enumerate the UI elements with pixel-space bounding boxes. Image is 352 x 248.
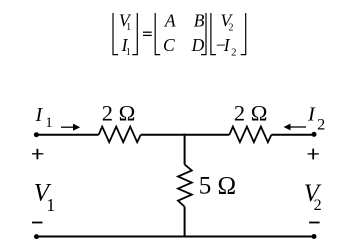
svg-text:I: I — [35, 104, 44, 126]
arrow for current I2 — [284, 124, 307, 131]
wire: shunt bottom lead — [184, 207, 186, 237]
plus sign right port — [308, 149, 319, 160]
svg-text:2: 2 — [229, 22, 234, 33]
bracket right of vector [V1;I1] — [132, 13, 137, 55]
svg-text:B: B — [194, 10, 205, 30]
wire: top-right lead — [271, 134, 314, 136]
wire: top-left lead — [36, 134, 98, 136]
svg-text:1: 1 — [45, 115, 52, 131]
svg-text:2 Ω: 2 Ω — [102, 101, 136, 126]
svg-text:I: I — [307, 103, 316, 125]
svg-text:1: 1 — [126, 22, 131, 33]
arrow for current I1 — [61, 124, 80, 131]
resistor R3 5ohm vertical zigzag — [178, 164, 192, 206]
minus sign right port — [309, 222, 320, 224]
svg-text:A: A — [164, 10, 176, 30]
svg-text:1: 1 — [46, 195, 55, 215]
svg-text:2: 2 — [317, 115, 325, 134]
svg-text:I: I — [223, 35, 231, 55]
wire: top middle segment — [141, 134, 230, 136]
terminal dot bottom-right — [312, 234, 317, 239]
bracket left of ABCD matrix — [155, 13, 160, 55]
terminal dot top-right — [312, 132, 317, 137]
bracket right of vector [V2;-I2] — [241, 13, 246, 55]
svg-text:C: C — [163, 35, 175, 55]
bracket left of vector [V2;-I2] — [211, 13, 216, 55]
resistor R1 2ohm left zigzag — [99, 127, 141, 143]
svg-text:5 Ω: 5 Ω — [199, 173, 236, 200]
plus sign left port — [32, 149, 43, 160]
svg-text:D: D — [191, 35, 205, 55]
bracket right of ABCD matrix — [201, 13, 206, 55]
svg-text:2: 2 — [314, 197, 322, 214]
wire: bottom return — [37, 236, 315, 238]
equals sign — [143, 32, 152, 35]
terminal dot bottom-left — [34, 234, 39, 239]
resistor R2 2ohm right zigzag — [229, 127, 271, 143]
svg-text:1: 1 — [126, 47, 131, 58]
bracket left of vector [V1;I1] — [113, 13, 118, 55]
terminal dot top-left — [34, 132, 39, 137]
wire: shunt top lead — [184, 134, 186, 165]
minus sign left port — [32, 222, 43, 224]
svg-text:2 Ω: 2 Ω — [234, 101, 268, 126]
svg-text:2: 2 — [231, 46, 236, 58]
